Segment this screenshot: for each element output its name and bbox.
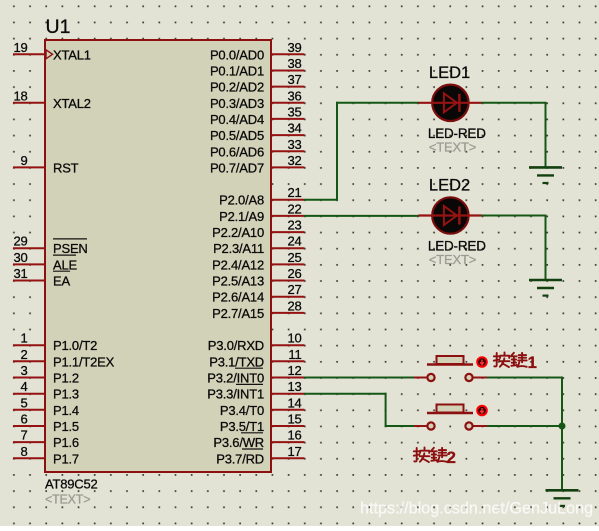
svg-text:P1.6: P1.6	[53, 435, 79, 450]
svg-text:31: 31	[13, 266, 27, 281]
svg-text:LED1: LED1	[429, 64, 470, 82]
svg-text:2: 2	[20, 347, 27, 362]
svg-text:14: 14	[287, 395, 301, 410]
svg-text:PSEN: PSEN	[53, 241, 88, 256]
svg-text:29: 29	[13, 234, 27, 249]
svg-text:P0.7/AD7: P0.7/AD7	[210, 160, 264, 175]
svg-text:P3.5/T1: P3.5/T1	[220, 419, 264, 434]
svg-text:P2.2/A10: P2.2/A10	[212, 225, 264, 240]
svg-text:P1.4: P1.4	[53, 403, 79, 418]
svg-text:U1: U1	[46, 16, 71, 38]
svg-text:30: 30	[13, 250, 27, 265]
svg-text:32: 32	[287, 153, 301, 168]
svg-text:P0.1/AD1: P0.1/AD1	[210, 64, 264, 79]
svg-text:EA: EA	[53, 274, 70, 289]
svg-text:22: 22	[287, 201, 301, 216]
svg-text:5: 5	[20, 395, 27, 410]
svg-text:P0.6/AD6: P0.6/AD6	[210, 144, 264, 159]
svg-text:26: 26	[287, 266, 301, 281]
svg-text:P3.1/TXD: P3.1/TXD	[209, 354, 264, 369]
svg-text:9: 9	[20, 153, 27, 168]
svg-text:11: 11	[288, 347, 301, 362]
svg-text:P2.4/A12: P2.4/A12	[212, 257, 264, 272]
svg-text:P2.0/A8: P2.0/A8	[219, 193, 264, 208]
svg-text:<TEXT>: <TEXT>	[429, 252, 476, 267]
svg-text:1: 1	[528, 353, 537, 372]
svg-text:P1.1/T2EX: P1.1/T2EX	[53, 354, 115, 369]
svg-text:P0.5/AD5: P0.5/AD5	[210, 128, 264, 143]
svg-text:2: 2	[447, 448, 456, 467]
svg-text:25: 25	[287, 250, 301, 265]
svg-text:RST: RST	[53, 160, 79, 175]
svg-text:27: 27	[287, 282, 301, 297]
svg-text:33: 33	[287, 137, 301, 152]
svg-text:P1.2: P1.2	[53, 371, 79, 386]
svg-text:35: 35	[287, 104, 301, 119]
svg-text:P3.0/RXD: P3.0/RXD	[208, 338, 264, 353]
svg-text:39: 39	[287, 40, 301, 55]
svg-text:21: 21	[287, 185, 301, 200]
svg-text:P2.3/A11: P2.3/A11	[213, 241, 264, 256]
svg-text:13: 13	[287, 379, 301, 394]
svg-text:P1.3: P1.3	[53, 387, 79, 402]
svg-text:https://blog.csdn.net/GenJuLon: https://blog.csdn.net/GenJuLong	[360, 500, 593, 518]
svg-text:P1.5: P1.5	[53, 419, 79, 434]
svg-text:P3.6/WR: P3.6/WR	[213, 435, 264, 450]
svg-text:ALE: ALE	[53, 257, 78, 272]
svg-text:28: 28	[287, 298, 301, 313]
svg-text:P2.5/A13: P2.5/A13	[212, 274, 264, 289]
svg-text:P3.2/INT0: P3.2/INT0	[207, 371, 264, 386]
svg-text:P2.6/A14: P2.6/A14	[212, 290, 264, 305]
svg-text:AT89C52: AT89C52	[45, 477, 98, 492]
svg-text:XTAL1: XTAL1	[53, 47, 91, 62]
svg-text:3: 3	[20, 363, 27, 378]
svg-text:8: 8	[20, 444, 27, 459]
svg-text:P3.4/T0: P3.4/T0	[220, 403, 264, 418]
svg-text:15: 15	[287, 412, 301, 427]
svg-text:P3.7/RD: P3.7/RD	[216, 451, 264, 466]
svg-text:P0.4/AD4: P0.4/AD4	[210, 112, 264, 127]
svg-text:LED2: LED2	[429, 177, 470, 195]
svg-text:XTAL2: XTAL2	[53, 96, 91, 111]
svg-text:23: 23	[287, 218, 301, 233]
svg-text:17: 17	[287, 444, 301, 459]
svg-text:37: 37	[287, 72, 301, 87]
svg-text:P0.3/AD3: P0.3/AD3	[210, 96, 264, 111]
svg-text:19: 19	[13, 40, 27, 55]
svg-text:7: 7	[20, 428, 27, 443]
svg-text:<TEXT>: <TEXT>	[429, 139, 476, 154]
svg-text:24: 24	[287, 234, 301, 249]
svg-text:12: 12	[287, 363, 301, 378]
svg-text:6: 6	[20, 412, 27, 427]
svg-text:P2.7/A15: P2.7/A15	[212, 306, 264, 321]
svg-text:16: 16	[287, 428, 301, 443]
svg-text:P1.0/T2: P1.0/T2	[53, 338, 97, 353]
svg-text:P3.3/INT1: P3.3/INT1	[207, 387, 264, 402]
svg-text:38: 38	[287, 56, 301, 71]
svg-text:P1.7: P1.7	[53, 451, 79, 466]
svg-text:34: 34	[287, 121, 301, 136]
svg-text:<TEXT>: <TEXT>	[45, 493, 90, 507]
svg-text:P2.1/A9: P2.1/A9	[219, 209, 264, 224]
svg-text:P0.2/AD2: P0.2/AD2	[210, 80, 264, 95]
svg-text:4: 4	[20, 379, 27, 394]
svg-text:10: 10	[287, 331, 301, 346]
svg-text:1: 1	[20, 331, 27, 346]
svg-text:P0.0/AD0: P0.0/AD0	[210, 47, 264, 62]
svg-text:18: 18	[13, 88, 27, 103]
svg-text:36: 36	[287, 88, 301, 103]
